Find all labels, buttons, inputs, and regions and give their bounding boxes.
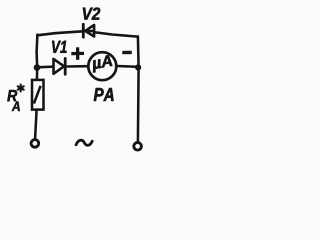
wire top right segment	[86, 31, 137, 36]
polarity minus sign	[122, 51, 132, 55]
label uA inside meter	[93, 55, 112, 72]
asterisk star	[18, 85, 24, 92]
wire right vertical	[137, 36, 140, 141]
AC source tilde	[76, 140, 92, 145]
label V1	[52, 41, 67, 53]
wire V1-to-meter	[66, 65, 89, 68]
label V2	[83, 8, 100, 20]
label PA	[94, 88, 114, 101]
resistor RA (adjustable, box with slash)	[32, 80, 44, 110]
wire top left segment	[37, 31, 82, 35]
node junction dot right	[135, 64, 141, 70]
terminal left	[31, 140, 39, 148]
label RA	[7, 90, 17, 101]
meter PA (microammeter)	[88, 52, 116, 80]
wire below resistor	[35, 110, 37, 139]
polarity plus sign	[71, 47, 84, 60]
terminal right	[134, 143, 142, 151]
wire middle branch left	[37, 65, 54, 68]
node junction dot left	[34, 64, 41, 71]
diode V2	[83, 24, 94, 37]
wire left vertical	[35, 35, 38, 80]
diode V1	[54, 58, 66, 74]
wire meter-to-right	[117, 65, 138, 68]
